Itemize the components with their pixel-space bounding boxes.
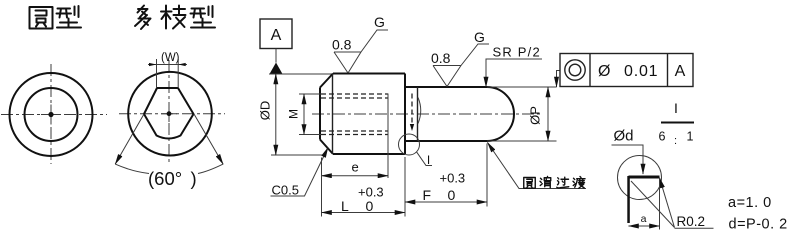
smooth transition leader [488, 143, 587, 189]
bottom extension line [271, 154, 323, 156]
datum triangle [270, 63, 283, 75]
svg-text:a: a [641, 213, 647, 225]
top extension line [269, 73, 333, 75]
svg-text:ØP: ØP [527, 106, 542, 125]
polygonal view vertical centerline [168, 60, 170, 162]
svg-text:d=P-0. 2: d=P-0. 2 [729, 217, 788, 233]
W dimension line with arrows [148, 63, 187, 66]
pin outline [405, 87, 514, 141]
detail head face (thick) [627, 176, 630, 223]
svg-text:G: G [474, 29, 485, 45]
surface finish mark 2 [433, 44, 489, 87]
svg-text:0.8: 0.8 [332, 37, 352, 53]
detail view boundary circle [618, 156, 662, 200]
svg-text:R0.2: R0.2 [677, 214, 706, 229]
datum box A [260, 19, 292, 49]
svg-text:L: L [341, 198, 349, 214]
svg-text::: : [674, 135, 677, 147]
svg-text:(W): (W) [161, 52, 180, 64]
feature control frame leader [557, 71, 561, 88]
hidden bore line with arrow [410, 94, 414, 132]
圆滑过渡 label [524, 178, 536, 189]
round view outer circle [10, 73, 93, 156]
head body outline [320, 74, 405, 155]
L dimension line [322, 212, 406, 214]
R0.2 label [675, 214, 714, 229]
polygonal socket hexagon [144, 88, 194, 139]
svg-text:C0.5: C0.5 [272, 183, 299, 198]
R0.2 leader 1 [660, 178, 675, 228]
L extension line right [404, 157, 406, 217]
title 圆型 (round type) [30, 7, 53, 29]
datum leader [275, 49, 277, 63]
svg-text:SR P/2: SR P/2 [493, 45, 541, 60]
head chamfer edge line [332, 74, 334, 155]
svg-text:ØD: ØD [257, 101, 272, 121]
svg-text:A: A [675, 63, 686, 80]
F extension line right [486, 144, 488, 207]
Ød leader [612, 145, 644, 174]
svg-text:Ød: Ød [614, 128, 634, 145]
round view center mark [41, 105, 61, 125]
thread end line [387, 94, 389, 179]
internal arc detail [418, 98, 421, 124]
polygonal view horizontal centerline [119, 113, 225, 115]
ØP dimension line [547, 87, 549, 141]
tolerance value Ø 0.01 [598, 63, 658, 80]
pin bore edge line [417, 87, 419, 141]
R0.2 leader 2 [631, 181, 675, 228]
svg-text:): ) [191, 168, 197, 189]
svg-text:1: 1 [687, 130, 694, 144]
detail view label I over 6:1 [659, 100, 694, 147]
W extension line right [177, 59, 179, 88]
W extension line left [156, 59, 158, 88]
round view horizontal centerline [1, 114, 107, 116]
60deg arc right [198, 164, 223, 173]
main view centerline [312, 113, 540, 115]
svg-text:A: A [271, 27, 282, 44]
60deg arc left [115, 164, 149, 173]
svg-text:M: M [287, 109, 301, 119]
svg-text:I: I [674, 100, 678, 116]
polygonal view circle [128, 72, 212, 156]
svg-text:G: G [374, 14, 385, 30]
surface finish mark 1 [334, 30, 388, 73]
internal thread hidden lines [321, 94, 388, 135]
ØP extension lines [487, 87, 557, 141]
e dimension line [322, 175, 389, 177]
60deg construction line left [115, 114, 144, 164]
C0.5 leader [271, 148, 329, 197]
M dimension line [303, 94, 305, 135]
60deg construction line right [194, 114, 223, 164]
title 多棱型 (polygonal type) [135, 6, 151, 30]
detail leader I [417, 152, 433, 166]
svg-text:0.8: 0.8 [431, 50, 451, 66]
round view vertical centerline [50, 64, 52, 164]
a extension line [659, 178, 661, 230]
round view inner circle [25, 88, 78, 141]
polygonal view center mark [161, 106, 177, 122]
feature control frame [560, 54, 693, 87]
F dimension line [405, 201, 487, 203]
F value [423, 187, 456, 203]
detail circle I [399, 134, 420, 155]
concentricity symbol [565, 60, 585, 80]
M extension lines [299, 94, 321, 135]
a dimension line [629, 225, 660, 227]
svg-text:(60°: (60° [148, 168, 182, 189]
svg-text:F: F [423, 187, 432, 203]
svg-text:a=1. 0: a=1. 0 [728, 195, 772, 211]
L extension line left [321, 158, 323, 217]
svg-text:0.01: 0.01 [624, 63, 658, 80]
SR P/2 leader [486, 59, 542, 87]
svg-text:6: 6 [659, 130, 666, 144]
ØD dimension line [275, 74, 277, 155]
svg-text:+0.3: +0.3 [440, 171, 466, 186]
svg-text:0: 0 [366, 198, 374, 214]
svg-text:I: I [427, 153, 430, 167]
svg-text:Ø: Ø [598, 63, 610, 80]
svg-text:e: e [352, 160, 359, 175]
detail pin edge (thick) [629, 176, 660, 179]
L value [341, 198, 374, 214]
svg-text:0: 0 [448, 187, 456, 203]
